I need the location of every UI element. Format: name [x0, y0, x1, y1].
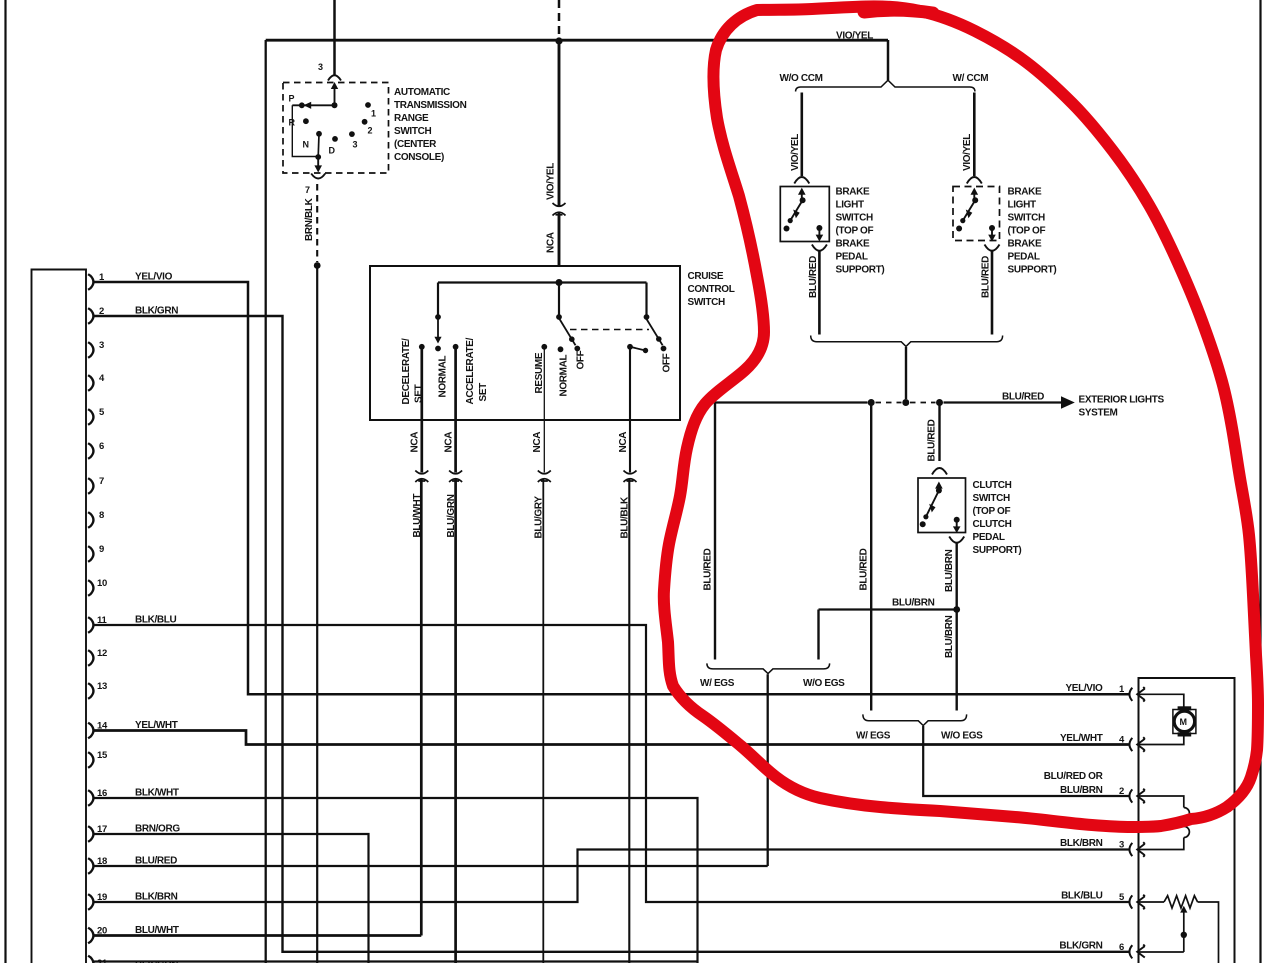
svg-text:RESUME: RESUME [534, 352, 545, 393]
svg-text:VIO/YEL: VIO/YEL [546, 163, 557, 200]
svg-text:3: 3 [318, 62, 323, 72]
svg-text:N: N [303, 140, 309, 150]
svg-text:BLU/BRN: BLU/BRN [892, 598, 935, 609]
svg-text:VIO/YEL: VIO/YEL [790, 134, 801, 171]
svg-text:TRANSMISSION: TRANSMISSION [394, 100, 467, 111]
svg-text:W/ CCM: W/ CCM [953, 73, 989, 84]
svg-text:BLU/RED: BLU/RED [808, 256, 819, 298]
svg-text:(TOP OF: (TOP OF [973, 506, 1011, 517]
svg-text:SET: SET [478, 383, 489, 402]
svg-text:NCA: NCA [410, 432, 421, 453]
svg-text:PEDAL: PEDAL [1008, 252, 1040, 263]
svg-text:BLK/BLU: BLK/BLU [135, 615, 177, 626]
svg-text:(TOP OF: (TOP OF [836, 226, 874, 237]
svg-text:PEDAL: PEDAL [973, 532, 1005, 543]
svg-text:(CENTER: (CENTER [394, 139, 437, 150]
svg-text:BLU/RED: BLU/RED [703, 548, 714, 590]
svg-text:1: 1 [371, 109, 376, 119]
svg-text:W/O CCM: W/O CCM [780, 73, 823, 84]
svg-text:CONSOLE): CONSOLE) [394, 152, 444, 163]
svg-text:BLU/RED: BLU/RED [135, 856, 177, 867]
svg-text:3: 3 [99, 340, 104, 351]
svg-text:VIO/YEL: VIO/YEL [962, 134, 973, 171]
svg-text:BLU/GRN: BLU/GRN [446, 494, 457, 537]
svg-text:P: P [289, 94, 295, 104]
svg-text:NCA: NCA [444, 432, 455, 453]
svg-text:PEDAL: PEDAL [836, 252, 868, 263]
svg-text:BLK/GRN: BLK/GRN [1059, 941, 1102, 952]
svg-text:AUTOMATIC: AUTOMATIC [394, 87, 450, 98]
svg-text:RANGE: RANGE [394, 113, 429, 124]
svg-text:DECELERATE/: DECELERATE/ [401, 338, 412, 405]
svg-text:W/ EGS: W/ EGS [856, 731, 891, 742]
svg-text:YEL/VIO: YEL/VIO [1065, 683, 1103, 694]
svg-text:OFF: OFF [662, 353, 673, 372]
svg-text:CONTROL: CONTROL [688, 284, 735, 295]
svg-text:NCA: NCA [546, 232, 557, 253]
svg-text:R: R [289, 118, 296, 128]
svg-text:2: 2 [368, 126, 373, 136]
svg-text:BRN/ORG: BRN/ORG [135, 824, 180, 835]
svg-text:8: 8 [99, 510, 104, 521]
svg-text:BLU/BRN: BLU/BRN [944, 615, 955, 658]
svg-text:BRAKE: BRAKE [1008, 187, 1042, 198]
svg-text:BLU/WHT: BLU/WHT [412, 494, 423, 538]
svg-text:SET: SET [414, 384, 425, 403]
svg-text:BRN/BLK: BRN/BLK [304, 197, 315, 241]
svg-text:VIO/YEL: VIO/YEL [836, 31, 873, 42]
svg-text:BLU/BRN: BLU/BRN [944, 549, 955, 592]
svg-text:10: 10 [97, 578, 107, 589]
svg-text:W/ EGS: W/ EGS [700, 678, 735, 689]
svg-text:M: M [1180, 717, 1187, 727]
svg-text:LIGHT: LIGHT [1008, 200, 1036, 211]
svg-text:BLU/RED: BLU/RED [859, 548, 870, 590]
svg-text:13: 13 [97, 681, 107, 692]
svg-text:BLU/RED: BLU/RED [927, 419, 938, 461]
svg-text:LIGHT: LIGHT [836, 200, 864, 211]
svg-text:ACCELERATE/: ACCELERATE/ [465, 337, 476, 404]
svg-text:YEL/WHT: YEL/WHT [1060, 733, 1103, 744]
svg-text:(TOP OF: (TOP OF [1008, 226, 1046, 237]
svg-text:BLU/RED OR: BLU/RED OR [1044, 771, 1104, 782]
svg-text:OFF: OFF [576, 350, 587, 369]
svg-text:7: 7 [99, 476, 104, 487]
svg-text:9: 9 [99, 544, 104, 555]
svg-text:W/O EGS: W/O EGS [941, 731, 983, 742]
svg-text:2: 2 [1119, 786, 1124, 797]
svg-text:SUPPORT): SUPPORT) [973, 545, 1022, 556]
svg-text:3: 3 [1119, 840, 1124, 851]
svg-text:BLU/BLK: BLU/BLK [620, 496, 631, 539]
svg-text:6: 6 [1119, 942, 1124, 953]
svg-text:BRAKE: BRAKE [836, 187, 870, 198]
svg-text:SUPPORT): SUPPORT) [1008, 265, 1057, 276]
svg-text:SWITCH: SWITCH [973, 493, 1010, 504]
svg-text:3: 3 [353, 140, 358, 150]
svg-text:CLUTCH: CLUTCH [973, 480, 1012, 491]
svg-text:SWITCH: SWITCH [394, 126, 431, 137]
svg-text:NORMAL: NORMAL [438, 355, 449, 397]
svg-text:15: 15 [97, 750, 108, 761]
svg-text:CRUISE: CRUISE [688, 271, 724, 282]
svg-text:6: 6 [99, 441, 104, 452]
svg-text:NCA: NCA [618, 432, 629, 453]
svg-text:BLK/WHT: BLK/WHT [135, 788, 179, 799]
svg-text:NORMAL: NORMAL [559, 354, 570, 396]
svg-text:SWITCH: SWITCH [1008, 213, 1045, 224]
svg-text:BLK/BRN: BLK/BRN [1060, 838, 1103, 849]
svg-text:BRAKE: BRAKE [1008, 239, 1042, 250]
svg-text:12: 12 [97, 648, 107, 659]
svg-text:D: D [329, 146, 336, 156]
svg-text:BLU/GRY: BLU/GRY [534, 496, 545, 539]
svg-text:SWITCH: SWITCH [836, 213, 873, 224]
svg-text:SUPPORT): SUPPORT) [836, 265, 885, 276]
svg-text:BLU/RED: BLU/RED [1002, 392, 1044, 403]
svg-text:EXTERIOR LIGHTS: EXTERIOR LIGHTS [1079, 395, 1165, 406]
svg-text:BLK/BRN: BLK/BRN [135, 892, 178, 903]
svg-text:7: 7 [305, 185, 310, 195]
svg-text:BRAKE: BRAKE [836, 239, 870, 250]
svg-text:BLU/RED: BLU/RED [981, 256, 992, 298]
svg-text:BLU/BRN: BLU/BRN [1060, 785, 1103, 796]
svg-text:W/O EGS: W/O EGS [803, 678, 845, 689]
svg-text:NCA: NCA [532, 432, 543, 453]
svg-text:SWITCH: SWITCH [688, 297, 725, 308]
svg-text:BLK/BLU: BLK/BLU [1061, 891, 1103, 902]
svg-text:SYSTEM: SYSTEM [1079, 408, 1118, 419]
svg-text:CLUTCH: CLUTCH [973, 519, 1012, 530]
